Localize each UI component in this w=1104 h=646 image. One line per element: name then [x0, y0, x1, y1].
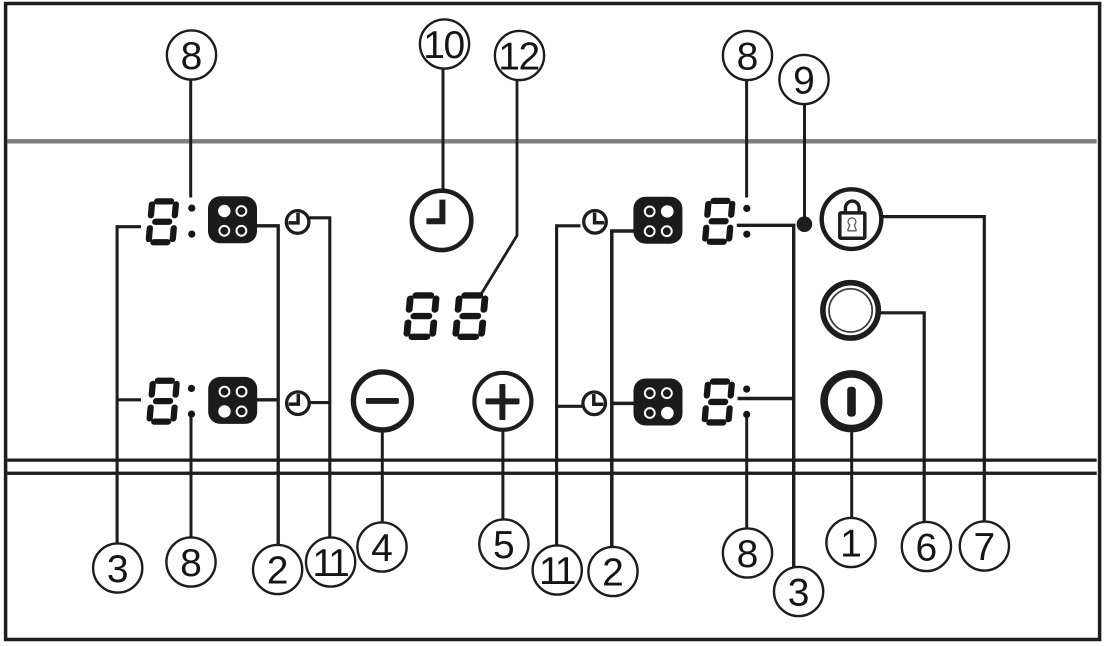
svg-text:7: 7: [974, 526, 996, 569]
double separator line upper: [7, 459, 1096, 462]
svg-text:8: 8: [181, 35, 203, 78]
wire callout 2 left to burner icons: [257, 226, 279, 545]
wire pause key to callout 6: [881, 313, 925, 524]
wire colon to callout 8 bottom-right: [745, 414, 748, 529]
timer display digit 2: [452, 292, 489, 340]
wire minus key to callout 4: [381, 428, 384, 523]
wire power key to callout 1: [850, 431, 853, 520]
wire plus key to callout 5: [501, 428, 504, 522]
pause key: [823, 283, 878, 338]
svg-text:3: 3: [788, 572, 810, 615]
burner icon bottom-right zone: [634, 379, 683, 426]
plus key: [474, 373, 531, 430]
timer display digit 1: [403, 292, 440, 340]
residual heat dot: [797, 216, 813, 232]
callout 3 bottom-right: [774, 567, 823, 616]
timer clock icon top-left: [286, 211, 309, 234]
wire colon to callout 8 bottom-left: [190, 415, 193, 538]
callout 8 bottom-left: [166, 537, 215, 586]
burner icon top-right zone: [633, 197, 682, 244]
callout 7: [960, 521, 1009, 570]
callout 2 middle: [588, 547, 637, 596]
seven-segment digit bottom-right: [701, 378, 735, 425]
colon top-right: [743, 205, 750, 212]
burner icon bottom-left zone: [208, 377, 257, 424]
callout 10: [420, 19, 469, 68]
svg-text:9: 9: [793, 60, 815, 103]
double separator line lower: [7, 472, 1096, 475]
callout 4: [357, 522, 406, 571]
minus key: [353, 372, 411, 430]
svg-text:12: 12: [498, 36, 538, 79]
wire callout 11 middle to timer clocks: [557, 226, 582, 545]
wire callout 12 to timer display: [482, 80, 518, 294]
timer clock symbol: [412, 191, 471, 250]
colon bottom-right: [743, 386, 750, 393]
svg-text:11: 11: [539, 550, 575, 593]
seven-segment digit top-right: [702, 198, 736, 245]
callout 5: [479, 519, 528, 568]
callout 9: [779, 55, 828, 104]
svg-text:4: 4: [371, 527, 393, 570]
callout 2 bottom-left: [253, 545, 302, 594]
callout 8 bottom-right: [723, 528, 772, 577]
wire callout 3 left to displays: [117, 227, 141, 544]
svg-text:5: 5: [493, 524, 515, 567]
svg-text:8: 8: [737, 36, 759, 79]
callout 8 top-right: [723, 31, 772, 80]
svg-text:8: 8: [737, 533, 759, 576]
svg-text:2: 2: [602, 552, 624, 595]
timer clock icon bottom-right: [583, 392, 606, 415]
wire callout 8 top-right to colon: [745, 80, 748, 198]
burner icon top-left zone: [208, 196, 257, 243]
seven-segment digit top-left: [145, 198, 179, 245]
svg-text:3: 3: [107, 548, 129, 591]
wire callout 3 right to displays: [737, 225, 794, 567]
lock key: [822, 189, 882, 249]
svg-text:8: 8: [180, 542, 202, 585]
svg-text:1: 1: [840, 523, 862, 566]
svg-text:2: 2: [267, 550, 289, 593]
callout 11 middle: [533, 545, 582, 594]
colon bottom-left: [188, 385, 195, 392]
wire lock key to callout 7: [882, 217, 985, 524]
wire callout 2 middle to burner icons: [612, 231, 635, 551]
wire callout 8 top-left to colon: [189, 77, 192, 198]
callout 1: [826, 518, 875, 567]
callout 3 bottom-left: [93, 543, 142, 592]
top separator line: [7, 139, 1096, 143]
wire callout 10 to clock symbol: [442, 68, 445, 192]
seven-segment digit bottom-left: [146, 378, 180, 425]
wire callout 9 to residual heat dot: [803, 104, 806, 220]
callout 11 bottom-left: [306, 537, 355, 586]
wire callout 11 left to timer clocks: [310, 218, 330, 537]
svg-text:10: 10: [423, 24, 464, 67]
callout 8 top-left: [167, 30, 216, 79]
timer clock icon top-right: [584, 211, 607, 234]
timer clock icon bottom-left: [287, 392, 310, 415]
colon top-left: [188, 205, 195, 212]
svg-text:11: 11: [312, 542, 348, 585]
callout 6: [902, 522, 951, 571]
svg-text:6: 6: [916, 527, 938, 570]
power key: [824, 374, 879, 429]
callout 12: [495, 31, 544, 80]
